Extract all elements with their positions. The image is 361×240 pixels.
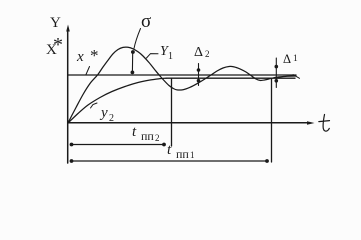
curve Y2 (monotonic response) bbox=[68, 78, 166, 123]
label sigma bbox=[141, 12, 151, 31]
label t_pp1 bbox=[167, 143, 171, 158]
set-point line X* (upper steady-state line) bbox=[68, 74, 296, 76]
Y axis (vertical axis) bbox=[66, 25, 70, 164]
label t (time axis, drawn glyph) bbox=[319, 115, 330, 132]
label Y1 bbox=[160, 45, 168, 59]
sigma leader line bbox=[134, 29, 141, 49]
leader tick for Y2 label bbox=[91, 103, 98, 108]
Delta2 arrow (tolerance band at x=198.5) bbox=[197, 64, 201, 86]
label x* (inner) bbox=[77, 50, 84, 65]
label Delta2 bbox=[194, 46, 203, 60]
lower tolerance band line bbox=[166, 77, 295, 79]
label t_pp2 bbox=[132, 125, 136, 140]
curve Y1 (oscillatory response) bbox=[68, 47, 296, 123]
label X* (set point, left) bbox=[46, 43, 57, 58]
end tick of band lines bbox=[293, 75, 300, 79]
t axis (horizontal axis) bbox=[68, 121, 315, 125]
overshoot arrow sigma (double-headed vertical arrow at peak) bbox=[131, 50, 135, 74]
dimension line t_pp1 bbox=[70, 159, 269, 163]
dimension line t_pp2 bbox=[70, 143, 166, 147]
label Y (vertical axis) bbox=[50, 16, 61, 31]
leader tick for Y1 label bbox=[147, 54, 159, 58]
label Y2 bbox=[101, 106, 108, 121]
leader tick for x* label bbox=[86, 67, 90, 75]
dropline at t_pp2 (x=171.5) bbox=[171, 78, 173, 146]
Delta1 arrow (tolerance band at x=276.3) bbox=[275, 58, 279, 88]
label Delta1 bbox=[283, 53, 291, 66]
dropline at t_pp1 (x=271.5) bbox=[271, 79, 273, 162]
